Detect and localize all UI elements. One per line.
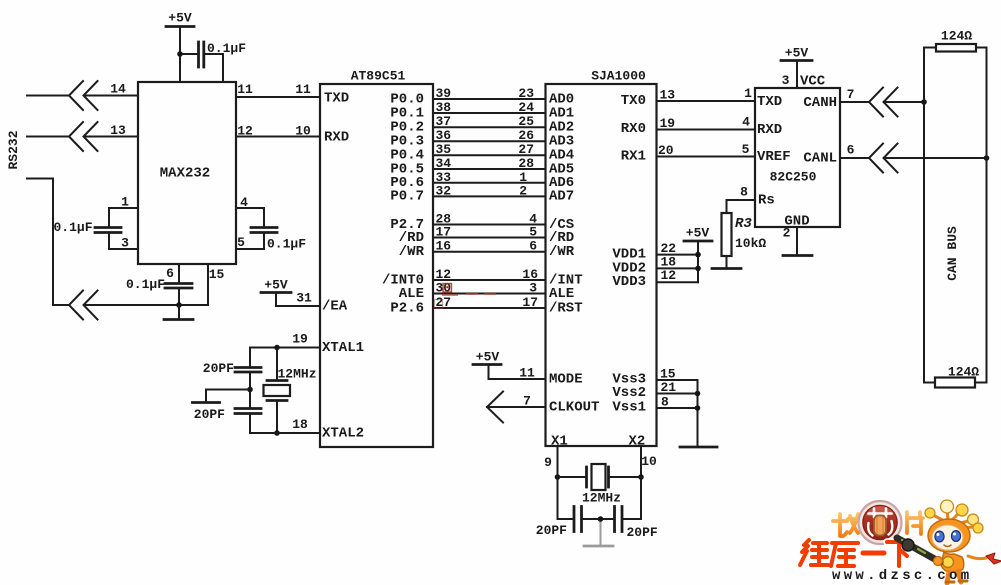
wire bus P0.1 (pin 38) to AD1 (pin 24) xyxy=(390,100,574,121)
wire Vss3 pin15 xyxy=(612,367,697,388)
svg-text:/EA: /EA xyxy=(322,299,348,315)
svg-text:MODE: MODE xyxy=(549,371,583,387)
wire VDD3 pin12 xyxy=(612,268,698,290)
node junction Vss2 xyxy=(695,391,701,397)
wire RS232 line 2 to MAX232 pin 13 xyxy=(27,123,138,138)
svg-text:35: 35 xyxy=(436,142,452,157)
wire RS232 ground branch xyxy=(27,179,69,306)
svg-text:38: 38 xyxy=(436,100,452,115)
svg-text:39: 39 xyxy=(436,86,452,101)
svg-text:CAN BUS: CAN BUS xyxy=(945,226,960,281)
IC U3 SJA1000 xyxy=(546,84,657,446)
svg-text:7: 7 xyxy=(847,87,855,102)
svg-text:20PF: 20PF xyxy=(536,523,567,538)
svg-text:0.1μF: 0.1μF xyxy=(207,41,246,56)
svg-text:3: 3 xyxy=(782,73,790,88)
node junction XTAL1 xyxy=(274,345,280,351)
svg-text:9: 9 xyxy=(544,455,552,470)
svg-text:20PF: 20PF xyxy=(627,525,658,540)
wire X2 pin 10 down xyxy=(641,446,657,519)
wire MAX232 pin12 to AT89C51 RXD pin10 xyxy=(236,124,320,139)
capacitor C2 0.1uF at MAX232 pin 6 xyxy=(126,264,192,305)
svg-text:2: 2 xyxy=(783,226,791,241)
svg-text:5: 5 xyxy=(742,142,750,157)
svg-text:+5V: +5V xyxy=(686,226,710,241)
svg-text:27: 27 xyxy=(436,295,452,310)
svg-text:5: 5 xyxy=(237,235,245,250)
svg-text:16: 16 xyxy=(436,239,452,254)
connector chevrons row 2 xyxy=(69,122,98,151)
svg-text:VCC: VCC xyxy=(800,74,826,90)
capacitor C6 20PF (XTAL2) xyxy=(194,407,261,433)
svg-text:20: 20 xyxy=(658,143,674,158)
capacitor C7 20PF (X1) xyxy=(536,507,601,539)
svg-text:TXD: TXD xyxy=(757,94,782,110)
wire MAX232 pin11 to AT89C51 TXD pin11 xyxy=(236,82,320,97)
node junction X1/crystal xyxy=(555,474,561,480)
connector chevrons CANH xyxy=(869,88,898,117)
svg-text:3: 3 xyxy=(529,281,537,296)
svg-text:0.1μF: 0.1μF xyxy=(53,220,92,235)
capacitor C4 0.1uF at MAX232 pins 4-5 xyxy=(236,195,306,252)
node junction +5V/C1 xyxy=(177,51,183,57)
ground at XTAL caps xyxy=(193,390,251,403)
svg-text:12MHz: 12MHz xyxy=(277,367,316,382)
svg-text:0.1μF: 0.1μF xyxy=(267,237,306,252)
svg-text:11: 11 xyxy=(237,82,253,97)
node junction CANH bus xyxy=(921,99,927,105)
wire VDD1 pin22 xyxy=(612,241,698,262)
svg-text:10: 10 xyxy=(295,124,311,139)
svg-text:21: 21 xyxy=(661,380,677,395)
svg-text:/WR: /WR xyxy=(399,244,425,260)
svg-text:10: 10 xyxy=(641,454,657,469)
svg-text:SJA1000: SJA1000 xyxy=(591,69,646,84)
svg-text:25: 25 xyxy=(518,114,534,129)
svg-text:124Ω: 124Ω xyxy=(941,29,972,44)
wire RS232 line 1 to MAX232 pin 14 xyxy=(27,82,138,97)
svg-text:12: 12 xyxy=(661,268,677,283)
svg-text:124Ω: 124Ω xyxy=(948,365,979,380)
ground below crystal caps (grey) xyxy=(584,521,613,546)
svg-text:17: 17 xyxy=(436,225,452,240)
wire SJA1000 TX0 pin13 to 82C250 TXD pin1 xyxy=(621,86,755,109)
svg-text:0.1μF: 0.1μF xyxy=(126,277,165,292)
svg-text:11: 11 xyxy=(519,366,535,381)
node junction caps midpoint xyxy=(598,516,604,522)
wire ground row to MAX232 pins 6/15 xyxy=(84,304,208,306)
connector chevrons row 1 xyxy=(69,81,98,110)
node junction XTAL2 xyxy=(274,430,280,436)
wire MAX232 pin 15 down xyxy=(208,264,224,305)
svg-text:+5V: +5V xyxy=(264,278,288,293)
wire Vss2 pin21 xyxy=(612,380,697,401)
IC U1 MAX232 xyxy=(138,82,236,264)
svg-text:R3: R3 xyxy=(735,216,752,232)
svg-text:20PF: 20PF xyxy=(194,407,225,422)
wire ALE (pin 30) to SJA1000 ALE (pin 3) xyxy=(399,281,574,302)
svg-text:/RST: /RST xyxy=(549,300,583,316)
svg-text:12MHz: 12MHz xyxy=(582,491,621,506)
node junction X2/crystal xyxy=(638,474,644,480)
IC U4 82C250 xyxy=(755,88,840,227)
wire SJA1000 RX0 pin19 to 82C250 RXD pin4 xyxy=(621,115,755,138)
wire bus P0.4 (pin 35) to AD4 (pin 27) xyxy=(390,142,574,163)
red artifact box around pin 30 xyxy=(443,284,452,293)
svg-text:19: 19 xyxy=(292,332,308,347)
wire bus P0.2 (pin 37) to AD2 (pin 25) xyxy=(390,114,574,135)
svg-text:31: 31 xyxy=(296,291,312,306)
svg-text:TX0: TX0 xyxy=(621,93,646,109)
wire bus P0.3 (pin 36) to AD3 (pin 26) xyxy=(390,128,574,149)
svg-text:6: 6 xyxy=(847,143,855,158)
resistor 124 ohm top terminator xyxy=(924,29,987,52)
wire +5V to /EA xyxy=(276,291,320,307)
wire VDD2 pin18 xyxy=(612,254,698,276)
wire bus P0.0 (pin 39) to AD0 (pin 23) xyxy=(390,86,574,107)
resistor R3 10k at Rs pin 8 xyxy=(712,185,766,269)
crystal Y2 12MHz xyxy=(558,464,642,506)
svg-text:13: 13 xyxy=(660,88,676,103)
node junction CANL bus xyxy=(984,155,990,161)
svg-text:RXD: RXD xyxy=(757,122,782,138)
svg-text:X2: X2 xyxy=(629,434,646,450)
svg-text:14: 14 xyxy=(110,82,126,97)
svg-text:36: 36 xyxy=(436,128,452,143)
svg-text:2: 2 xyxy=(519,183,527,198)
resistor 124 ohm bottom terminator xyxy=(924,365,987,388)
svg-text:24: 24 xyxy=(518,100,534,115)
svg-text:7: 7 xyxy=(523,394,531,409)
svg-text:CANH: CANH xyxy=(803,95,837,111)
svg-text:XTAL1: XTAL1 xyxy=(322,340,364,356)
svg-text:RXD: RXD xyxy=(324,130,349,146)
IC U2 AT89C51 xyxy=(320,84,433,447)
svg-text:18: 18 xyxy=(292,417,308,432)
wire bus P0.5 (pin 34) to AD5 (pin 28) xyxy=(390,156,574,177)
wire /RD (pin 17) to SJA1000 /RD (pin 5) xyxy=(399,225,574,246)
wire CANH pin 7 to bus xyxy=(803,87,924,111)
power +5V at VDD pins xyxy=(684,226,712,283)
svg-text:AD7: AD7 xyxy=(549,189,574,205)
svg-text:AT89C51: AT89C51 xyxy=(351,69,406,84)
wire P2.6 (pin 27) to SJA1000 /RST (pin 17) xyxy=(390,295,582,316)
wire SJA1000 RX1 pin20 to 82C250 VREF pin5 xyxy=(621,142,755,165)
svg-text:12: 12 xyxy=(237,124,253,139)
svg-text:26: 26 xyxy=(518,128,534,143)
svg-text:17: 17 xyxy=(522,295,538,310)
svg-text:19: 19 xyxy=(660,116,676,131)
svg-text:VREF: VREF xyxy=(757,149,791,165)
node junction Vss1 xyxy=(695,405,701,411)
svg-text:P2.6: P2.6 xyxy=(390,300,424,316)
crystal Y1 12MHz xyxy=(264,348,317,434)
svg-text:5: 5 xyxy=(529,225,537,240)
svg-text:11: 11 xyxy=(295,82,311,97)
svg-text:1: 1 xyxy=(744,86,752,101)
red artifact at pin 27 xyxy=(435,300,443,309)
svg-text:28: 28 xyxy=(518,156,534,171)
svg-text:RS232: RS232 xyxy=(6,130,21,169)
node junction VDD1 xyxy=(695,252,701,258)
node junction VDD2 xyxy=(695,266,701,272)
svg-text:23: 23 xyxy=(518,86,534,101)
svg-text:+5V: +5V xyxy=(785,46,809,61)
red watermark artifact under ALE wire xyxy=(442,294,496,295)
svg-text:8: 8 xyxy=(740,185,748,200)
power +5V at /EA pin 31 xyxy=(261,278,291,307)
svg-text:10kΩ: 10kΩ xyxy=(735,236,766,251)
node junction 20PF midpoint xyxy=(247,387,253,393)
svg-text:32: 32 xyxy=(436,183,452,198)
ground below Vss rail xyxy=(680,446,717,449)
wire /INT0 (pin 12) to SJA1000 /INT (pin 16) xyxy=(382,267,583,288)
wire Vss1 pin8 xyxy=(612,395,697,416)
svg-text:34: 34 xyxy=(436,156,452,171)
wire X1 pin 9 down xyxy=(544,446,557,519)
svg-text:Rs: Rs xyxy=(758,193,775,209)
svg-text:8: 8 xyxy=(661,395,669,410)
wire CLKOUT pin 7 with arrow xyxy=(487,392,599,423)
svg-text:27: 27 xyxy=(518,142,534,157)
wire XTAL1 pin 19 xyxy=(250,332,320,348)
svg-text:XTAL2: XTAL2 xyxy=(322,426,364,442)
power +5V at VCC pin 3 xyxy=(781,46,812,89)
svg-text:20PF: 20PF xyxy=(203,361,234,376)
wire CANL pin 6 to bus xyxy=(803,143,986,167)
wire CAN bus right rail xyxy=(986,48,988,383)
svg-text:MAX232: MAX232 xyxy=(160,166,210,182)
svg-text:Vss1: Vss1 xyxy=(612,400,646,416)
svg-text:18: 18 xyxy=(661,254,677,269)
svg-text:CLKOUT: CLKOUT xyxy=(549,399,599,415)
wire Vss rail xyxy=(697,380,699,446)
wire CAN bus left rail xyxy=(923,48,925,383)
svg-text:82C250: 82C250 xyxy=(770,170,817,185)
wire P2.7 (pin 28) to SJA1000 /CS (pin 4) xyxy=(390,212,574,233)
svg-text:RX1: RX1 xyxy=(621,149,646,165)
svg-text:X1: X1 xyxy=(551,434,568,450)
node junction pin6 ground xyxy=(176,302,182,308)
svg-text:6: 6 xyxy=(529,239,537,254)
svg-text:15: 15 xyxy=(209,267,225,282)
wire XTAL2 pin 18 xyxy=(250,417,320,433)
wire bus P0.7 (pin 32) to AD7 (pin 2) xyxy=(390,183,574,204)
capacitor C8 20PF (X2) xyxy=(601,507,658,541)
svg-text:+5V: +5V xyxy=(168,11,192,26)
svg-text:CANL: CANL xyxy=(803,151,837,167)
capacitor C5 20PF (XTAL1) xyxy=(203,348,261,409)
svg-text:TXD: TXD xyxy=(324,91,349,107)
svg-text:4: 4 xyxy=(742,115,750,130)
svg-text:P0.7: P0.7 xyxy=(390,189,424,205)
wire GND pin 2 to ground xyxy=(783,226,812,256)
connector chevrons CANL xyxy=(869,144,898,173)
wire MODE pin 11 xyxy=(489,366,583,388)
capacitor C1 0.1uF (MAX232 top decoupling) xyxy=(180,41,246,82)
svg-text:+5V: +5V xyxy=(476,350,500,365)
power +5V at MODE pin11 xyxy=(473,350,501,380)
svg-text:13: 13 xyxy=(110,123,126,138)
svg-text:/WR: /WR xyxy=(549,244,575,260)
svg-text:VDD3: VDD3 xyxy=(612,274,646,290)
svg-text:6: 6 xyxy=(166,266,174,281)
power +5V supply at MAX232 xyxy=(166,11,194,83)
svg-text:www.dzsc.com: www.dzsc.com xyxy=(832,568,972,584)
capacitor C3 0.1uF at MAX232 pins 1-3 xyxy=(53,195,138,251)
wire /WR (pin 16) to SJA1000 /WR (pin 6) xyxy=(399,239,575,260)
wire bus P0.6 (pin 33) to AD6 (pin 1) xyxy=(390,170,574,191)
connector chevrons row 3 xyxy=(69,291,98,320)
ground below MAX232 xyxy=(164,305,193,320)
svg-text:RX0: RX0 xyxy=(621,121,646,137)
svg-text:37: 37 xyxy=(436,114,452,129)
